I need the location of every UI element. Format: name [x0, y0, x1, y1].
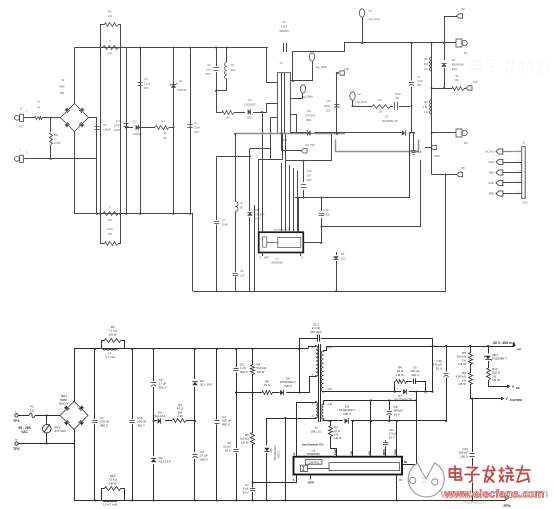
wire damper row y421	[154, 420, 157, 422]
wire secondary top run	[293, 43, 445, 52]
inductor L4 (x431.5 upper)	[429, 57, 431, 71]
wire column x97	[96, 118, 98, 214]
capacitor C12 (x472)	[472, 399, 474, 452]
capacitor C8 (x235.2)	[233, 273, 238, 275]
inductor L2 (on bottom rail)	[103, 501, 117, 502]
wire row y127.5 with D1/R4	[126, 127, 133, 129]
svg-text:T1: T1	[279, 61, 283, 65]
svg-text:100n: 100n	[324, 213, 330, 217]
svg-text:U1: U1	[275, 257, 279, 261]
capacitor C13 (x303.6)	[303, 161, 305, 182]
svg-text:16: 16	[379, 110, 382, 114]
svg-text:3000 V: 3000 V	[59, 402, 69, 406]
svg-text:1/8 W: 1/8 W	[109, 332, 117, 336]
capacitor C1 (bulk, x97)	[94, 126, 99, 128]
svg-text:L2 4.7 mH: L2 4.7 mH	[103, 503, 117, 507]
svg-text:S1J-13-F: S1J-13-F	[159, 460, 172, 464]
svg-text:DFLR1100-7: DFLR1100-7	[273, 444, 277, 460]
transformer T1 primary winding (bottom)	[316, 346, 318, 376]
wire column x444 upper	[444, 16, 446, 43]
svg-text:‹ PI-8107-051217 ›: ‹ PI-8107-051217 ›	[462, 501, 486, 505]
svg-text:D6: D6	[255, 208, 259, 212]
connector A3_PW (pentagon)	[281, 134, 283, 151]
wire box bottom y291.3	[193, 291, 446, 293]
svg-text:16 V: 16 V	[394, 412, 400, 416]
resistor R7 (row y88)	[453, 87, 465, 91]
wire secondary rail y346	[324, 347, 515, 351]
bridge rectifier BR (top circuit)	[61, 104, 89, 132]
svg-text:C5: C5	[207, 63, 211, 67]
svg-text:8·8: 8·8	[422, 480, 426, 484]
svg-text:S1J-13-F: S1J-13-F	[200, 383, 213, 387]
diode D4 (clamp row)	[272, 392, 280, 394]
wire column x411.5 with C10	[411, 43, 413, 81]
svg-text:1ML_S1: 1ML_S1	[311, 430, 322, 434]
resistor R2 47ohm (FWD)	[330, 421, 332, 426]
svg-text:200 V: 200 V	[343, 412, 351, 416]
svg-text:100uF: 100uF	[103, 128, 111, 132]
wire VBB row	[488, 386, 507, 388]
capacitor C11 (BPS)	[385, 440, 387, 442]
svg-text:D5: D5	[269, 448, 273, 452]
wire E4 stem base	[302, 93, 304, 99]
svg-text:25V: 25V	[307, 178, 312, 182]
wire GND column	[396, 421, 398, 457]
wire resistor row y88	[432, 88, 453, 90]
resistor R1 (bypass loop above rail)	[101, 25, 105, 48]
connector J1 (AC line input, top circuit)	[15, 115, 20, 120]
svg-text:LAB: LAB	[344, 67, 349, 71]
wire clamp to primary pin2	[263, 104, 278, 113]
diode D4 (clamp row)	[248, 109, 251, 114]
svg-text:1/8 W: 1/8 W	[492, 378, 500, 382]
svg-text:S1J-13-F: S1J-13-F	[154, 414, 166, 418]
capacitor C1 (bottom)	[94, 349, 96, 419]
wire rail to primary top pin	[267, 48, 278, 83]
svg-text:1/8 W: 1/8 W	[334, 436, 342, 440]
svg-text:C3: C3	[144, 77, 148, 81]
svg-text:47uF: 47uF	[417, 79, 423, 83]
svg-text:1/8 W: 1/8 W	[396, 373, 404, 377]
svg-text:www.elecfans.com: www.elecfans.com	[444, 489, 545, 501]
wire return row y421	[323, 420, 344, 422]
wire rail to primary pin4	[309, 347, 317, 349]
wire column x336	[336, 73, 338, 133]
svg-text:440VAC: 440VAC	[279, 29, 289, 33]
svg-text:TP2: TP2	[13, 447, 20, 451]
svg-text:440 VAC: 440 VAC	[310, 330, 323, 334]
capacitor C9 (row y106)	[394, 102, 396, 110]
capacitor C4 (x190)	[187, 124, 192, 126]
svg-text:SK3200B-LTP: SK3200B-LTP	[382, 119, 399, 123]
capacitor C5 (clamp)	[236, 349, 238, 367]
svg-text:A/C NO: A/C NO	[485, 150, 494, 154]
ground symbol (top circuit)	[413, 133, 415, 150]
IC U1 D pin bottom	[396, 475, 398, 501]
svg-text:J2: J2	[522, 141, 525, 145]
svg-text:B4: B4	[378, 98, 382, 102]
svg-text:(L2): (L2)	[328, 402, 333, 406]
varistor RV (top circuit)	[50, 118, 52, 132]
svg-text:D1: D1	[133, 120, 137, 124]
capacitor CL (Y-cap on rail)	[283, 43, 285, 52]
svg-text:BD1: BD1	[306, 118, 312, 122]
ghost watermark (top right)	[470, 58, 550, 73]
svg-text:neg_DMa: neg_DMa	[315, 65, 327, 69]
wire step W2	[259, 133, 283, 233]
svg-text:neg_Dma: neg_Dma	[368, 17, 380, 21]
svg-text:SR: SR	[349, 451, 353, 455]
wire SR column	[352, 421, 354, 457]
diode D1 (x153.6)	[153, 421, 155, 456]
wire lower-left rail (top circuit)	[75, 213, 194, 215]
resistor A5 6.8k (x252.7)	[252, 393, 254, 433]
wire primary pin3 to step	[271, 118, 278, 160]
svg-text:271W: 271W	[54, 141, 61, 145]
svg-text:600 V: 600 V	[284, 384, 292, 388]
diode D6 (on W1 column)	[247, 212, 252, 215]
svg-text:47K: 47K	[108, 52, 113, 56]
svg-text:R4: R4	[161, 120, 165, 124]
svg-text:10uF: 10uF	[194, 126, 200, 130]
svg-text:1uF: 1uF	[240, 274, 245, 278]
svg-text:30 V, 400 mA: 30 V, 400 mA	[493, 341, 516, 345]
svg-text:4.7 mH: 4.7 mH	[105, 355, 115, 359]
inductor L1 (on rail)	[103, 349, 117, 350]
diode D7 (row y133)	[402, 130, 405, 135]
resistor R12 815	[487, 369, 491, 381]
gray wire feedback U	[336, 140, 419, 152]
svg-text:neg_DMa: neg_DMa	[301, 95, 313, 99]
svg-text:D: D	[399, 478, 401, 482]
bottom rail (bottom circuit)	[74, 500, 505, 502]
svg-text:VBB: VBB	[489, 192, 494, 196]
capacitor C6 (x236)	[236, 393, 238, 448]
wire box top y197.5	[295, 197, 410, 199]
svg-text:25 V: 25 V	[436, 366, 442, 370]
resistor R6 (row y106)	[373, 105, 391, 109]
wire secondary pin FL to D7 row	[322, 391, 401, 393]
svg-text:GND: GND	[488, 160, 494, 164]
wire aux pin2 row y418	[267, 418, 316, 420]
diode D3 (row y133)	[307, 130, 310, 135]
diode D7 (output rectifier)	[403, 389, 406, 394]
resistor R3 (on lower rail)	[103, 212, 119, 216]
transformer T1 body (top circuit)	[277, 73, 290, 134]
wire column x173.5	[173, 48, 175, 214]
wire top DC rail (top circuit)	[75, 47, 269, 49]
capacitor C7 (x252.7)	[252, 483, 254, 488]
diode D8 (x336 below box)	[336, 252, 338, 255]
transformer T1 secondary2 winding (bottom)	[322, 404, 324, 419]
capacitor C4 (x217)	[216, 349, 218, 420]
ellipse connector E1	[359, 9, 364, 17]
svg-text:B9: B9	[461, 166, 465, 170]
pentagon connector P2 (y88)	[466, 86, 472, 90]
pentagon connector P3 (y174.5)	[457, 172, 463, 176]
svg-text:20 Ω: 20 Ω	[264, 383, 271, 387]
plug connector B3	[456, 129, 462, 137]
wire VO column	[370, 400, 372, 456]
svg-text:C8: C8	[395, 96, 399, 100]
transformer T1 core (top circuit)	[281, 73, 283, 134]
pentagon connector GND (top circuit)	[425, 147, 431, 149]
inductor K1 (x227)	[226, 48, 228, 63]
label RTN	[505, 496, 508, 499]
wire output diode row y133	[290, 132, 306, 134]
resistor R8 (bottom clamp row)	[263, 391, 273, 395]
wire column x190	[190, 48, 192, 214]
svg-text:50 V: 50 V	[242, 490, 248, 494]
wire S-pin row y482.6	[253, 482, 297, 484]
svg-text:40V: 40V	[194, 130, 199, 134]
svg-text:BB: BB	[516, 387, 520, 390]
svg-text:D4: D4	[248, 98, 252, 102]
svg-text:100 V: 100 V	[411, 373, 419, 377]
capacitor C10 (x446)	[446, 346, 448, 372]
svg-text:16 V: 16 V	[225, 448, 231, 452]
capacitor C7 (x216.7)	[217, 156, 250, 158]
svg-text:BPP: BPP	[308, 481, 314, 485]
wire bridge right to C1 column	[89, 117, 98, 119]
resistor R6 4.99k	[469, 373, 473, 385]
svg-text:60uF: 60uF	[395, 92, 401, 96]
wire box left pin x299	[298, 198, 300, 233]
pentagon connector LAB	[338, 71, 344, 75]
wire CL3 left drop	[299, 338, 301, 392]
svg-text:100: 100	[424, 62, 429, 66]
svg-text:neg_Dma: neg_Dma	[355, 100, 367, 104]
svg-text:CONTROL: CONTROL	[308, 462, 320, 464]
inductor L5 (x431.5 lower)	[429, 100, 431, 114]
fuse F1 (bottom)	[29, 413, 35, 418]
IC U1 BPP pin	[310, 475, 312, 480]
capacitor CL3 (Y-cap)	[299, 338, 317, 340]
svg-text:2A: 2A	[37, 106, 40, 110]
svg-text:N: N	[15, 438, 17, 442]
svg-text:2.2nF: 2.2nF	[281, 25, 288, 29]
svg-text:D7: D7	[385, 115, 389, 119]
svg-text:1N4744: 1N4744	[177, 88, 187, 92]
svg-text:FWD: FWD	[333, 449, 337, 455]
bridge rectifier BR1 (bottom)	[60, 401, 88, 429]
gray wire clamp bus y133.9	[234, 133, 345, 135]
svg-text:600u: 600u	[324, 104, 330, 108]
transformer T1 aux winding (bottom)	[316, 402, 318, 418]
svg-text:47K: 47K	[108, 218, 113, 222]
svg-text:BD1: BD1	[247, 116, 253, 120]
svg-text:LA3: LA3	[473, 80, 478, 84]
svg-text:D3: D3	[307, 109, 311, 113]
svg-text:4B1: 4B1	[60, 91, 65, 95]
wire snubber row y106	[353, 106, 373, 108]
wire fuse to bridge	[43, 117, 62, 119]
wire column x120.5	[120, 48, 122, 214]
wire top rail (bottom circuit)	[74, 348, 308, 350]
wire mid horizontal y226.5	[321, 226, 420, 228]
svg-text:VAC: VAC	[21, 430, 28, 434]
svg-text:10uF: 10uF	[222, 223, 228, 227]
capacitor C3 (x195)	[194, 421, 196, 452]
ellipse connector E2	[309, 53, 314, 61]
svg-text:903: 903	[231, 68, 236, 72]
wire fuse to bridge (bottom)	[35, 415, 60, 417]
plug connector TP3	[456, 39, 462, 47]
diode D2 (x444)	[444, 43, 446, 60]
wire lower rail drop to IC ground	[192, 214, 194, 291]
wire L2 row y400.4	[324, 400, 417, 402]
svg-text:GND: GND	[488, 181, 494, 185]
wire bridge bottom to lower rail	[74, 132, 76, 214]
svg-text:1uF: 1uF	[206, 68, 211, 72]
connector block CON	[522, 147, 526, 199]
capacitor C5 (x216)	[216, 48, 218, 67]
svg-text:GND: GND	[393, 449, 397, 455]
IC U2 top pins	[281, 163, 283, 232]
svg-text:1/8 W: 1/8 W	[458, 382, 466, 386]
wire BR1 top to rail	[74, 349, 76, 401]
wire column x254.5	[254, 205, 256, 291]
svg-text:C6: C6	[327, 99, 331, 103]
resistor R10 (loop below lower rail)	[101, 214, 105, 244]
IC U2 pin stubs bottom	[262, 253, 264, 257]
wire step W1	[250, 148, 271, 150]
wire J1 to fuse	[24, 117, 36, 119]
varistor RV1 (bottom)	[46, 415, 48, 424]
wire aux pin1 to D pin	[297, 403, 317, 457]
svg-text:1uF: 1uF	[307, 174, 312, 178]
resistor R7 (row y421)	[173, 419, 187, 423]
svg-text:D: D	[301, 257, 303, 260]
svg-text:C2: C2	[116, 119, 120, 123]
svg-text:C14: C14	[324, 208, 329, 212]
svg-text:200 V: 200 V	[159, 385, 167, 389]
svg-text:AUX(PWM): AUX(PWM)	[510, 399, 523, 402]
svg-text:D8: D8	[341, 252, 345, 256]
svg-text:16: 16	[164, 131, 167, 135]
svg-text:CL: CL	[282, 20, 286, 24]
diode D1 (row y127.5)	[136, 125, 139, 130]
capacitor C6 output (x336)	[334, 104, 339, 106]
svg-text:200 V: 200 V	[240, 370, 248, 374]
resistor R10 (loop above bottom rail)	[102, 489, 105, 501]
svg-text:100V: 100V	[255, 218, 261, 221]
svg-text:35V: 35V	[417, 83, 422, 87]
wire BR1 bottom to rail	[74, 429, 76, 500]
svg-text:480 V: 480 V	[100, 423, 108, 427]
svg-text:RTN: RTN	[503, 504, 511, 508]
watermark text dianzifashaoyou	[450, 466, 531, 482]
IC U1 S pin	[296, 475, 298, 483]
svg-text:W: W	[62, 78, 65, 82]
wire VAUX row	[470, 398, 501, 400]
svg-text:C4: C4	[417, 75, 421, 79]
svg-text:F1: F1	[37, 100, 41, 104]
wire secondary pin y114.5	[291, 115, 297, 133]
svg-text:1/8 W: 1/8 W	[458, 362, 466, 366]
wire column x285.5	[285, 418, 287, 501]
svg-text:BPS: BPS	[382, 449, 386, 455]
capacitor C14 (x321.4)	[321, 198, 323, 212]
svg-text:V2: V2	[357, 92, 361, 96]
svg-text:B3: B3	[464, 141, 468, 145]
capacitor C2 (x126)	[123, 123, 128, 125]
diode D2 (x195)	[194, 349, 196, 379]
svg-text:400V: 400V	[114, 128, 120, 132]
pentagon connector P1 (top right)	[457, 14, 463, 18]
svg-text:L: L	[15, 409, 17, 413]
svg-text:5V1: 5V1	[54, 133, 59, 137]
wire drain column x262	[262, 112, 264, 232]
svg-text:GND: GND	[434, 154, 440, 158]
svg-text:R5: R5	[226, 116, 230, 120]
resistor R4 (row y127.5)	[155, 126, 169, 130]
resistor R5 100k	[470, 346, 472, 353]
wire clamp row y112	[216, 112, 222, 114]
op-amp U2 InnoSwitch (top circuit IC)	[259, 232, 304, 252]
wire column x140	[140, 48, 142, 214]
svg-text:450 V: 450 V	[222, 422, 230, 426]
ellipse connector E4	[300, 85, 305, 93]
svg-text:75K: 75K	[108, 232, 113, 236]
svg-text:CRS160T: CRS160T	[244, 103, 256, 107]
svg-text:10uF: 10uF	[114, 124, 120, 128]
transformer T1 core (bottom)	[318, 344, 320, 422]
zener VR1	[488, 346, 490, 354]
transformer T1 secondary winding (bottom)	[321, 351, 323, 392]
svg-text:T5: T5	[368, 9, 372, 13]
svg-text:K1: K1	[231, 63, 235, 67]
svg-text:16V: 16V	[326, 109, 331, 113]
svg-text:C1: C1	[103, 123, 107, 127]
inductor Lb (x235.2)	[235, 134, 237, 202]
svg-text:C8: C8	[240, 269, 244, 273]
svg-text:100 V: 100 V	[277, 451, 281, 458]
svg-text:200 V: 200 V	[200, 457, 208, 461]
svg-text:MURS160: MURS160	[452, 63, 464, 67]
svg-text:Z1: Z1	[179, 79, 183, 83]
wire CL3 right drop	[432, 338, 434, 392]
diode D5 (x267)	[266, 418, 268, 445]
svg-text:1N4007: 1N4007	[132, 132, 142, 136]
wire right column x431.5	[431, 43, 433, 175]
svg-text:R2: R2	[455, 78, 459, 82]
wire J2 to node	[24, 158, 98, 160]
svg-text:SL2: SL2	[341, 257, 346, 261]
wire bridge top to rail	[74, 48, 76, 104]
svg-text:R1: R1	[108, 10, 112, 14]
wire ellipse E2 stem	[312, 61, 314, 81]
svg-text:450 V: 450 V	[137, 423, 145, 427]
svg-text:1/8 W: 1/8 W	[257, 370, 265, 374]
wire step W3	[286, 133, 332, 161]
fuse F1 (top circuit)	[35, 117, 43, 120]
wire secondary top pin	[291, 52, 293, 81]
svg-text:C13: C13	[307, 169, 312, 173]
svg-text:D: D	[293, 452, 295, 456]
svg-text:AC: AC	[19, 125, 23, 129]
svg-text:B2: B2	[461, 7, 465, 11]
svg-text:InnoSwitch-CH: InnoSwitch-CH	[302, 442, 323, 446]
connector J2 (AC neutral input, top circuit)	[15, 156, 20, 161]
svg-text:4.9k: 4.9k	[423, 105, 429, 109]
svg-text:INN2603K: INN2603K	[271, 261, 283, 265]
svg-text:C7: C7	[222, 218, 226, 222]
wire FB column x416	[416, 392, 418, 465]
svg-text:1/8 W: 1/8 W	[109, 481, 117, 485]
svg-text:50V: 50V	[206, 72, 211, 76]
svg-text:275 VAC: 275 VAC	[55, 429, 68, 433]
